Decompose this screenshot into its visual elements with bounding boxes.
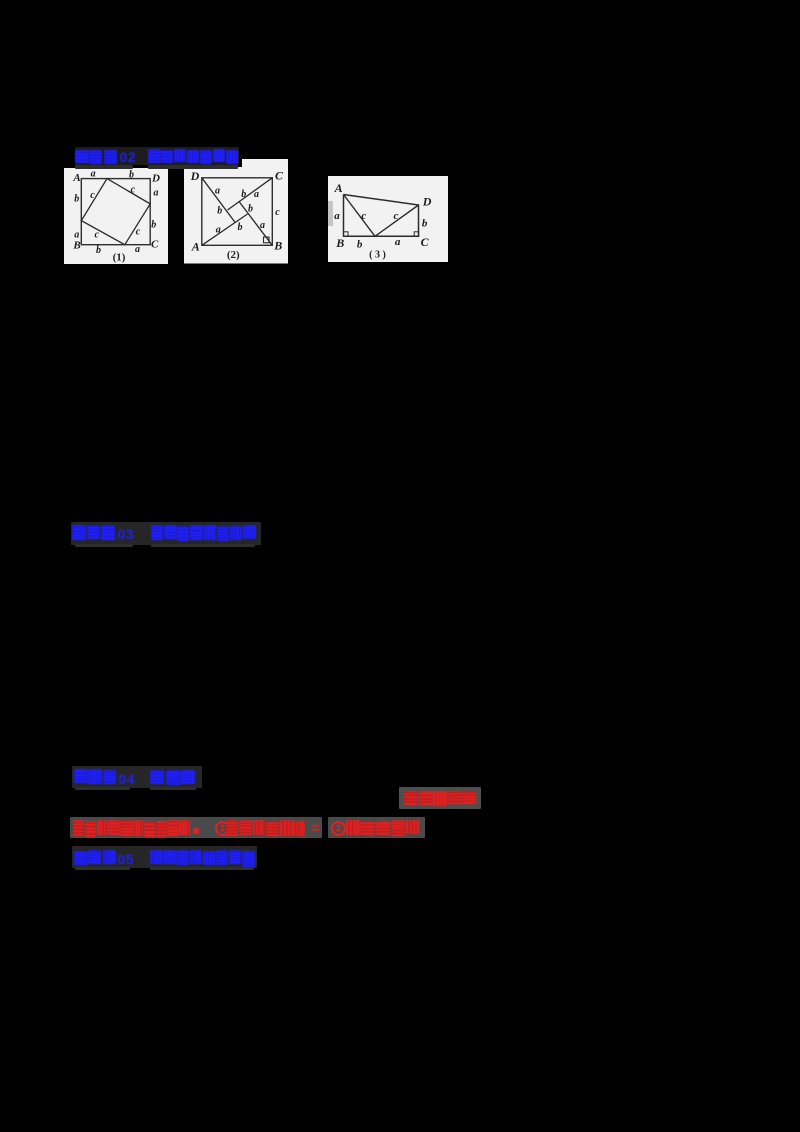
svg-text:a: a xyxy=(154,187,159,198)
svg-text:C: C xyxy=(151,238,159,250)
svg-text:b: b xyxy=(241,189,246,200)
svg-text:D: D xyxy=(190,169,200,183)
svg-text:B: B xyxy=(72,239,80,251)
svg-text:b: b xyxy=(238,222,243,233)
svg-text:(2): (2) xyxy=(227,249,240,261)
svg-text:C: C xyxy=(421,235,430,249)
svg-text:c: c xyxy=(94,229,99,240)
svg-text:b: b xyxy=(151,219,156,230)
svg-text:D: D xyxy=(422,194,432,208)
svg-text:b: b xyxy=(357,238,363,250)
svg-text:B: B xyxy=(273,239,282,253)
svg-text:a: a xyxy=(260,220,265,231)
svg-text:b: b xyxy=(96,245,101,256)
svg-text:a: a xyxy=(215,185,220,196)
svg-text:c: c xyxy=(136,226,141,237)
svg-text:c: c xyxy=(131,184,136,195)
svg-text:a: a xyxy=(254,189,259,200)
svg-text:a: a xyxy=(216,224,221,235)
svg-text:A: A xyxy=(72,172,80,184)
svg-text:a: a xyxy=(91,168,96,179)
svg-text:c: c xyxy=(90,190,95,201)
svg-text:b: b xyxy=(129,169,134,180)
svg-text:b: b xyxy=(217,206,222,217)
svg-text:A: A xyxy=(191,240,200,254)
svg-text:( 3 ): ( 3 ) xyxy=(369,249,386,260)
svg-text:D: D xyxy=(151,172,160,184)
svg-text:a: a xyxy=(334,210,340,222)
svg-text:C: C xyxy=(275,168,284,182)
svg-text:a: a xyxy=(395,236,401,248)
svg-text:B: B xyxy=(335,236,344,250)
svg-text:a: a xyxy=(135,244,140,255)
svg-text:b: b xyxy=(74,193,79,204)
svg-text:b: b xyxy=(248,203,253,214)
svg-text:A: A xyxy=(334,181,343,195)
svg-text:(1): (1) xyxy=(113,251,126,263)
svg-text:c: c xyxy=(275,207,280,218)
svg-text:c: c xyxy=(361,210,366,222)
svg-text:c: c xyxy=(394,210,399,222)
svg-text:b: b xyxy=(422,217,428,229)
